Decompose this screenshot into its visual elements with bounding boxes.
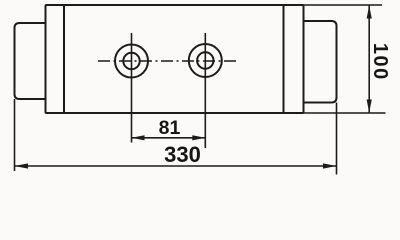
arrowhead 100 top bbox=[367, 6, 372, 19]
horizontal dash-dot centerline through holes bbox=[98, 60, 238, 62]
arrowhead 81 right bbox=[192, 135, 205, 140]
100 bottom extension line (body bottom edge extended) bbox=[304, 112, 386, 114]
arrowhead 100 bottom bbox=[367, 100, 372, 113]
main body outline bbox=[46, 5, 304, 113]
81 dimension line bbox=[132, 137, 206, 139]
left end cap bbox=[15, 23, 46, 99]
hole 1 inner circle bbox=[123, 53, 139, 69]
330 right extension line bbox=[336, 103, 338, 175]
arrowhead 330 left bbox=[15, 163, 29, 168]
svg-text:330: 330 bbox=[164, 142, 201, 167]
svg-text:81: 81 bbox=[159, 117, 181, 139]
paper background bbox=[0, 0, 400, 180]
svg-text:100: 100 bbox=[369, 43, 391, 81]
100 dimension line bbox=[368, 6, 370, 113]
left inner step line bbox=[63, 5, 65, 113]
right inner step line bbox=[283, 5, 285, 113]
hole 1 vertical centerline / extension line to 81 dim bbox=[131, 33, 133, 143]
100 top extension line (body top edge extended) bbox=[304, 4, 383, 6]
arrowhead 81 left bbox=[132, 135, 145, 140]
330 left extension line bbox=[14, 99, 16, 171]
330 dimension line bbox=[15, 165, 337, 167]
hole 2 inner circle bbox=[197, 52, 213, 68]
right end cap bbox=[304, 21, 337, 103]
hole 1 outer circle bbox=[115, 45, 148, 78]
hole 2 vertical centerline / extension line to 81 dim bbox=[204, 33, 206, 148]
arrowhead 330 right bbox=[323, 163, 337, 168]
hole 2 outer circle bbox=[189, 44, 222, 77]
